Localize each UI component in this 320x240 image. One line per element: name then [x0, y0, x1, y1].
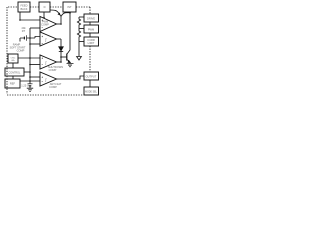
transistor Q1 steering pair collector branch — [61, 13, 70, 17]
wire node U2 output through D1 to Q2 base — [60, 39, 62, 62]
block U9 MODE SELECT (right column E) — [84, 87, 99, 95]
svg-text:∫: ∫ — [44, 60, 47, 65]
svg-text:INT: INT — [67, 5, 72, 9]
block CONTROL (left middle) — [5, 68, 24, 76]
junction bus CONTROL line — [29, 71, 31, 73]
battery B1 offset source with wires — [20, 37, 40, 42]
wire CONTROL block to bus — [24, 71, 30, 73]
resistor R1 and resistor R2 divider chain — [77, 17, 80, 57]
ground at reference B2 — [27, 88, 33, 91]
svg-text:40k: 40k — [11, 60, 15, 62]
svg-text:COMP: COMP — [17, 48, 25, 52]
value and name labels — [9, 4, 98, 94]
junction U1 output node — [60, 23, 62, 25]
block U5 DRIVE (right column A) — [84, 14, 99, 22]
svg-text:COMP: COMP — [41, 23, 49, 27]
wire INT box stub — [69, 11, 71, 14]
wire U2 output — [57, 38, 62, 40]
block U7 CURRENT LIMIT (right column C) — [84, 37, 99, 46]
junction bus oscillator line — [29, 57, 31, 59]
wire REF block to U4 inverting input — [20, 80, 40, 82]
svg-text:PWM: PWM — [88, 27, 94, 31]
wire U8 to U9 — [89, 80, 91, 87]
junction bus U2 input — [29, 43, 31, 45]
wire bus to U4 noninverting input — [30, 76, 40, 78]
junction INT box node — [69, 12, 71, 14]
svg-text:OSC: OSC — [11, 58, 16, 60]
block FEEDBACK (top box 1) — [18, 2, 30, 12]
wire CONTROL block to REF block — [12, 76, 14, 79]
junction feedback box corner — [19, 19, 21, 21]
block D latch (top box 2) — [39, 2, 50, 12]
block U6 PWM (right column B) — [84, 25, 99, 33]
transistor Q1 steering pair emitter branch — [50, 10, 61, 16]
wire divider tap to U5 — [79, 16, 84, 18]
svg-text:D: D — [44, 5, 46, 9]
svg-text:MODE SEL: MODE SEL — [85, 91, 98, 93]
svg-text:COMP: COMP — [49, 68, 57, 72]
svg-text:CONTROL: CONTROL — [9, 71, 21, 74]
svg-text:∫: ∫ — [44, 77, 47, 82]
wire U3 output — [57, 61, 62, 63]
polarity marks comparator inputs — [42, 20, 43, 82]
block oscillator OSC — [8, 54, 18, 63]
wire latch strobe into U1 — [43, 12, 45, 18]
op-amp U2 dead-time comparator — [40, 32, 57, 46]
wire bus to U3 inverting input — [30, 64, 40, 66]
wire U5 to U6 — [89, 22, 91, 25]
junction bus U3 input — [29, 64, 31, 66]
junction U3 output node — [60, 61, 62, 63]
junction Q2 base node — [60, 56, 62, 58]
dashed IC boundary left edge — [6, 7, 8, 94]
svg-text:RT: RT — [22, 29, 26, 33]
wire oscillator to CONTROL block — [12, 63, 14, 68]
junction bus B1 branch — [29, 37, 31, 39]
svg-text:LIMIT: LIMIT — [88, 41, 95, 45]
svg-text:DRIVE: DRIVE — [87, 16, 95, 20]
wire divider tap to U7 — [79, 41, 84, 43]
wire U1 output — [57, 23, 62, 25]
block REF regulator (left bottom) — [5, 79, 20, 88]
svg-text:COMP: COMP — [49, 85, 57, 89]
op-amp U1 PWM comparator — [40, 17, 57, 32]
wire U6 to U7 — [89, 33, 91, 37]
wire bus to U2 inverting input — [30, 43, 40, 45]
wire FEEDBACK box down to U1 noninverting input — [20, 12, 40, 20]
transistor Q2 shutdown — [66, 54, 68, 61]
svg-text:1.25 V: 1.25 V — [21, 83, 29, 87]
op-amp U4 anti-sat comparator — [40, 72, 57, 86]
ground at Q2 emitter — [67, 64, 74, 67]
dashed control line across top row — [8, 7, 90, 14]
wire U4 output to U8 — [57, 76, 85, 79]
wire node from steering pair to U1 output — [60, 16, 62, 24]
dashed IC boundary bottom edge — [7, 94, 84, 96]
wire oscillator to U3 noninverting input — [18, 57, 40, 59]
wire bus to U1 inverting input — [30, 27, 40, 29]
junction strobe on U1 — [43, 17, 45, 19]
wire divider tap to U6 — [79, 28, 84, 30]
ground arrow at divider bottom — [77, 57, 82, 61]
block U8 OUTPUT (right column D) — [84, 72, 99, 80]
wire vertical feedback bus — [29, 28, 31, 81]
dashed control line U5 to U8 — [89, 46, 91, 72]
svg-text:REF: REF — [10, 82, 16, 86]
junction bus reference node — [29, 80, 31, 82]
block INT (top box 3) — [63, 2, 76, 12]
junction bus U4 input — [29, 76, 31, 78]
svg-text:OUTPUT: OUTPUT — [86, 74, 97, 78]
svg-text:BACK: BACK — [20, 7, 27, 11]
op-amp U3 shutdown comparator — [40, 55, 57, 69]
battery B2 reference 1.25V — [29, 81, 31, 84]
svg-text:∫: ∫ — [44, 37, 47, 42]
wire from INT box node down to Q2 collector — [67, 13, 70, 54]
diode D1 — [59, 47, 63, 51]
